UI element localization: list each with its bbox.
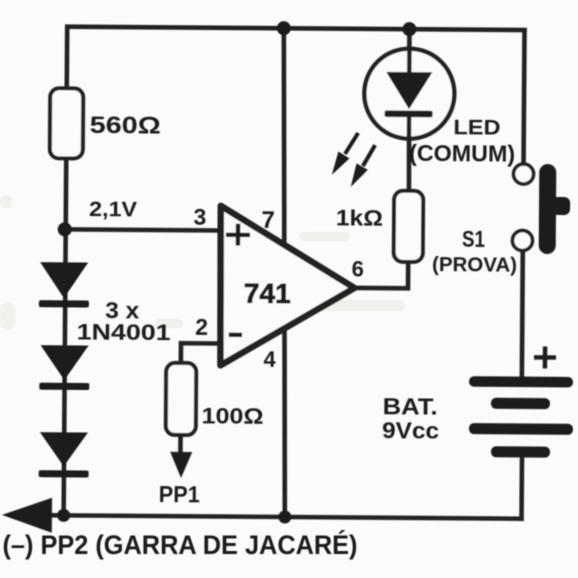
wire LED cathode inside circle bbox=[407, 117, 412, 141]
LED triangle bbox=[386, 72, 432, 109]
node dot bottom left bbox=[57, 509, 70, 522]
switch S1 terminal top bbox=[513, 164, 533, 184]
svg-text:560Ω: 560Ω bbox=[90, 112, 161, 140]
wire pin3 input bbox=[66, 229, 222, 230]
svg-text:1kΩ: 1kΩ bbox=[336, 205, 383, 230]
diode D1 1N4001 bbox=[39, 262, 89, 307]
op-amp U1 741 triangle bbox=[220, 206, 355, 366]
switch S1 terminal bottom bbox=[512, 230, 532, 250]
svg-text:PP1: PP1 bbox=[159, 481, 200, 507]
node dot LED top bbox=[402, 22, 416, 36]
node dot bottom pin4 bbox=[278, 510, 291, 523]
battery plate 3 long bbox=[469, 423, 573, 435]
arrow PP2 left bbox=[2, 497, 52, 532]
diode D2 1N4001 bbox=[39, 345, 89, 390]
switch S1 lever bbox=[539, 164, 571, 254]
svg-text:2: 2 bbox=[195, 314, 208, 340]
wire op-amp pin4 bbox=[283, 328, 286, 517]
wire top rail bbox=[67, 27, 524, 30]
svg-text:6: 6 bbox=[352, 256, 364, 281]
LED circle bbox=[364, 48, 455, 139]
LED light arrow 2 bbox=[351, 145, 375, 187]
svg-text:7: 7 bbox=[261, 207, 275, 234]
resistor 1k body bbox=[394, 191, 424, 262]
wire 100ohm to PP1 bbox=[178, 434, 183, 456]
wire op-amp pin7 bbox=[282, 28, 286, 248]
resistor 100R body bbox=[166, 363, 197, 435]
ghost print-through artifacts bbox=[0, 91, 454, 329]
wire switch to battery bbox=[520, 249, 526, 376]
wire LED branch bbox=[408, 29, 410, 191]
svg-text:BAT.: BAT. bbox=[383, 393, 438, 419]
svg-text:LED: LED bbox=[453, 116, 500, 139]
svg-text:(COMUM): (COMUM) bbox=[409, 140, 515, 167]
svg-text:741: 741 bbox=[244, 277, 291, 308]
svg-text:3: 3 bbox=[193, 204, 206, 230]
wire bottom rail bbox=[38, 515, 521, 519]
svg-text:(–) PP2 (GARRA DE JACARÉ): (–) PP2 (GARRA DE JACARÉ) bbox=[3, 529, 358, 560]
battery plate 4 short bbox=[491, 446, 550, 457]
resistor 560R body bbox=[50, 88, 84, 158]
label PP2 bottom bbox=[3, 529, 358, 560]
LED light arrow 1 bbox=[332, 133, 358, 175]
node dot pin7 top bbox=[277, 21, 291, 35]
LED cathode bar bbox=[385, 110, 433, 117]
battery plate 1 long bbox=[469, 376, 573, 387]
wire pin6 output bbox=[353, 262, 408, 288]
svg-text:1N4001: 1N4001 bbox=[77, 319, 171, 345]
battery plate 2 short bbox=[491, 398, 550, 409]
svg-text:(PROVA): (PROVA) bbox=[432, 253, 517, 277]
wire LED anode inside circle bbox=[407, 49, 412, 78]
opamp plus symbol bbox=[226, 224, 250, 246]
opamp minus symbol bbox=[229, 333, 242, 338]
wire battery to bottom corner bbox=[519, 456, 524, 519]
diode D3 1N4001 bbox=[39, 432, 89, 477]
svg-text:S1: S1 bbox=[462, 226, 485, 252]
svg-text:2,1V: 2,1V bbox=[89, 198, 137, 221]
svg-text:100Ω: 100Ω bbox=[201, 403, 263, 428]
arrow PP1 down bbox=[170, 452, 192, 478]
wire right rail to switch bbox=[521, 30, 527, 166]
wire left rail bbox=[64, 27, 68, 515]
svg-text:9Vcc: 9Vcc bbox=[382, 417, 439, 443]
node dot 2,1V bbox=[58, 222, 72, 236]
wire pin2 input bbox=[181, 343, 221, 364]
battery plus sign bbox=[534, 346, 556, 368]
svg-text:4: 4 bbox=[263, 347, 276, 372]
